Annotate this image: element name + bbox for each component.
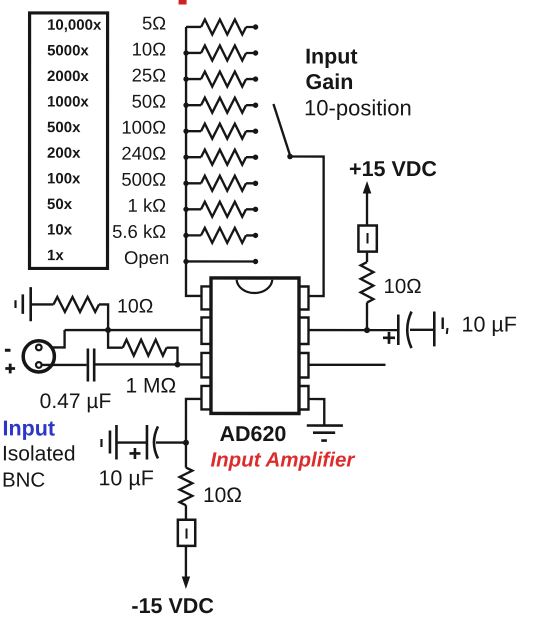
svg-text:25Ω: 25Ω [132,65,167,86]
svg-text:-15 VDC: -15 VDC [131,594,213,618]
svg-text:AD620: AD620 [219,422,286,446]
svg-text:1 kΩ: 1 kΩ [128,195,167,216]
svg-text:5.6 kΩ: 5.6 kΩ [112,221,166,242]
svg-text:2000x: 2000x [47,68,89,85]
svg-text:Isolated: Isolated [2,442,76,465]
svg-text:200x: 200x [47,145,81,162]
svg-text:1 MΩ: 1 MΩ [125,374,176,397]
svg-text:1x: 1x [47,247,64,264]
svg-text:Input: Input [305,45,358,69]
svg-text:10Ω: 10Ω [132,38,167,59]
svg-text:500Ω: 500Ω [121,169,166,190]
svg-text:500x: 500x [47,119,81,136]
svg-text:10Ω: 10Ω [203,484,242,507]
svg-text:Input Amplifier: Input Amplifier [210,448,355,471]
svg-text:Open: Open [124,247,169,268]
svg-text:10Ω: 10Ω [384,275,422,298]
svg-text:10Ω: 10Ω [117,295,153,317]
svg-text:10 µF: 10 µF [98,466,153,490]
svg-text:10-position: 10-position [304,95,412,120]
svg-text:10x: 10x [47,222,73,239]
svg-text:50Ω: 50Ω [132,91,167,112]
svg-text:+15 VDC: +15 VDC [349,157,437,181]
svg-text:100Ω: 100Ω [121,117,166,138]
svg-text:5Ω: 5Ω [142,12,166,33]
svg-text:240Ω: 240Ω [121,143,166,164]
svg-text:BNC: BNC [2,469,45,492]
svg-text:10,000x: 10,000x [47,17,102,34]
svg-text:Input: Input [2,416,55,440]
svg-text:10 µF: 10 µF [461,313,516,337]
svg-text:0.47 µF: 0.47 µF [40,390,112,413]
svg-text:1000x: 1000x [47,94,89,111]
svg-text:Gain: Gain [306,70,354,94]
svg-text:100x: 100x [47,170,81,187]
svg-text:5000x: 5000x [47,42,89,59]
svg-text:50x: 50x [47,196,73,213]
